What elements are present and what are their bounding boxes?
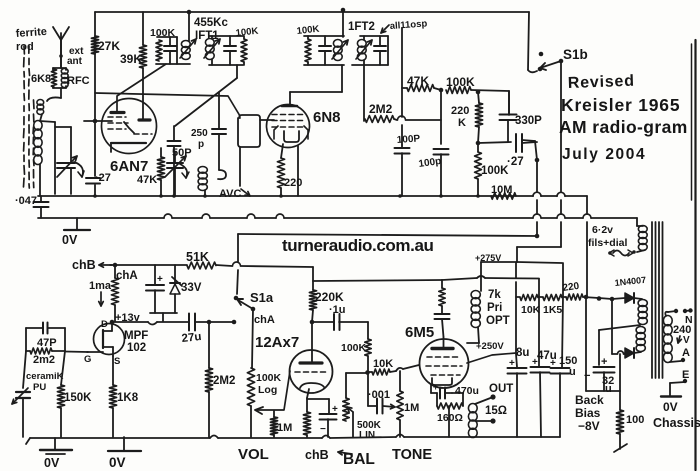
wire ps bus joins (538, 296, 543, 298)
ground 0V bottom left (54, 438, 56, 450)
capacitor C 27u (188, 314, 190, 331)
tube 6N8 plate bar (272, 114, 303, 116)
capacitor C 8u (515, 263, 517, 278)
resistor R 220K plate (312, 281, 314, 290)
box 6N8 osc input (238, 115, 260, 147)
svg-text:·1u: ·1u (329, 304, 346, 316)
svg-text:K: K (458, 117, 466, 129)
svg-text:470u: 470u (455, 385, 479, 397)
wire IFT1 sec down (236, 65, 238, 78)
svg-text:u: u (569, 366, 576, 378)
svg-text:220: 220 (284, 177, 302, 189)
svg-text:100K: 100K (481, 165, 509, 177)
svg-text:100K: 100K (256, 372, 282, 384)
svg-text:2M2: 2M2 (369, 102, 393, 116)
wire ant coil link (40, 114, 42, 121)
svg-text:1M: 1M (404, 402, 419, 414)
svg-text:39K: 39K (120, 52, 142, 66)
wire S1b switch (528, 12, 529, 70)
svg-text:1FT2: 1FT2 (348, 21, 375, 33)
svg-text:V: V (683, 335, 690, 346)
wire HT CT (599, 325, 640, 330)
svg-text:·047: ·047 (15, 195, 37, 207)
junction dots bus y196 (93, 194, 97, 198)
svg-text:100K: 100K (446, 75, 475, 89)
zener D 33V (174, 265, 176, 283)
svg-text:RFC: RFC (67, 75, 90, 87)
ferrite rod dashed lines (23, 46, 24, 187)
variable capacitor C tune1 (55, 126, 71, 128)
capacitor C .001 (368, 405, 377, 407)
svg-text:0V: 0V (663, 400, 678, 414)
svg-text:220: 220 (451, 105, 469, 117)
svg-text:−: − (320, 424, 326, 435)
node 47K-100K junction (439, 88, 444, 93)
svg-text:1M: 1M (277, 422, 292, 434)
svg-text:150K: 150K (64, 392, 92, 404)
variable capacitor C tune2 osc (174, 152, 176, 162)
arrow tuning gang curve (74, 162, 83, 177)
svg-text:10K: 10K (373, 358, 393, 370)
wire 330p top link (508, 91, 510, 115)
tube 6AN7 envelope (102, 99, 157, 154)
bus AVC/0V y196 (38, 195, 533, 197)
svg-text:·27: ·27 (95, 172, 111, 184)
svg-text:turneraudio.com.au: turneraudio.com.au (282, 236, 434, 255)
svg-text:0V: 0V (44, 456, 60, 470)
svg-text:51K: 51K (186, 250, 209, 264)
svg-text:VOL: VOL (238, 446, 269, 463)
pickup PU crystal (23, 351, 26, 388)
resistor R 2m2 gate (26, 350, 30, 352)
IFT2 tankB box (360, 35, 388, 37)
tube 12AX7 envelope (290, 350, 333, 393)
wire detector feed (363, 65, 365, 121)
svg-text:+: + (433, 382, 438, 392)
svg-text:27u: 27u (181, 331, 202, 345)
svg-text:6K8: 6K8 (31, 73, 51, 85)
resistor R 100K ift1 (156, 40, 162, 61)
resistor R 1K5 (543, 295, 562, 301)
diode D 1N4007 lower (612, 353, 617, 355)
inductor L ant coupling (37, 100, 44, 106)
tube 6M5 grid dashes (427, 356, 458, 358)
resistor R 6K8 (51, 69, 56, 87)
wire 2M2-100p2 (440, 90, 442, 144)
inductor L osc coil (198, 167, 207, 174)
svg-text:G: G (84, 354, 91, 365)
svg-text:+: + (509, 358, 515, 369)
svg-text:Back: Back (575, 393, 604, 407)
svg-text:−: − (584, 370, 590, 382)
capacitor C supply bypass (154, 265, 156, 284)
wire FET out line (112, 321, 148, 323)
inductor L OPT secondary (468, 404, 477, 413)
svg-text:AM radio-gram: AM radio-gram (559, 117, 688, 137)
resistor R 220 6N8 cathode (281, 144, 283, 158)
label all110sp (381, 25, 389, 33)
svg-text:PU: PU (33, 382, 46, 393)
tube 6N8 top cap (282, 105, 297, 108)
wire radio to S1a (237, 234, 239, 262)
wire 27K branch vertical (94, 12, 96, 176)
inductor L IFT1 primary (181, 41, 190, 48)
svg-text:S: S (114, 356, 120, 367)
svg-text:p: p (198, 139, 204, 150)
tube 12AX7 plate bar (300, 361, 322, 364)
svg-text:100K: 100K (235, 26, 259, 39)
wire osc hook (218, 170, 226, 179)
svg-text:chA: chA (254, 314, 275, 326)
resistor R 100K det (446, 87, 471, 94)
resistor R 220K det (476, 90, 481, 95)
svg-text:Log: Log (258, 384, 277, 396)
resistor R 150K (61, 351, 65, 385)
resistor R 6K8 and RFC coil box (53, 67, 66, 69)
wire 6N8 grid link (341, 65, 343, 92)
wire osc grid line (95, 93, 240, 116)
wire 12AX7 grid (256, 371, 290, 410)
capacitor C .27 coupling (515, 134, 517, 152)
dial lamp squiggle (613, 251, 629, 256)
svg-text:2M2: 2M2 (213, 375, 235, 387)
resistor R 220 ps (566, 294, 583, 300)
wire zener-cap bottom (150, 312, 177, 314)
antenna symbol (60, 40, 62, 68)
svg-text:Revised: Revised (568, 73, 636, 92)
resistor R 1M tone (399, 371, 401, 391)
svg-text:330P: 330P (515, 115, 542, 127)
svg-text:S1a: S1a (250, 290, 274, 305)
resistor R 160 (437, 403, 463, 409)
svg-text:Bias: Bias (575, 406, 601, 420)
resistor R 10K ps (520, 295, 538, 301)
resistor R 47K 6AN7 cathode (160, 148, 162, 157)
resistor R 100K agc (475, 152, 482, 179)
resistor R 27K (91, 36, 98, 54)
wire OUT terminal (475, 397, 493, 404)
svg-text:6M5: 6M5 (405, 324, 434, 341)
tube 6N8 grid dashes (272, 120, 303, 122)
svg-text:1ma: 1ma (89, 280, 112, 292)
svg-text:250: 250 (191, 128, 208, 139)
svg-text:1N4007: 1N4007 (614, 275, 646, 288)
wire 6AN7 grid link (84, 120, 112, 122)
svg-text:BAL: BAL (343, 451, 375, 468)
svg-text:100p: 100p (418, 156, 442, 170)
resistor R 10K tone (368, 371, 372, 373)
wire 39K branch (142, 12, 144, 45)
capacitor C 470u cathode (431, 392, 437, 394)
wire 6M5 cathode gnd (448, 406, 450, 437)
svg-text:0V: 0V (109, 455, 126, 470)
tube 6M5 cathode (432, 378, 452, 385)
wire B+ riser x587 (586, 196, 588, 214)
wire 6N8 right leg (297, 146, 299, 196)
page edge right (694, 40, 696, 470)
capacitor C .1u (312, 321, 334, 323)
svg-text:100K: 100K (341, 342, 367, 354)
inductor L OPT primary (480, 262, 482, 291)
svg-text:Chassis: Chassis (653, 416, 700, 430)
svg-text:0V: 0V (62, 233, 78, 247)
wire S1b feed down (560, 61, 562, 192)
earth chassis (683, 379, 687, 383)
svg-text:102: 102 (127, 342, 146, 354)
node chA contact (232, 320, 237, 325)
svg-text:ceramiK: ceramiK (26, 371, 64, 382)
svg-text:455Kc: 455Kc (194, 17, 228, 29)
tube 6AN7 plate bars (111, 111, 124, 114)
svg-text:chB: chB (305, 448, 329, 462)
bus rectifier DC (516, 296, 520, 298)
capacitor C 47P (26, 327, 43, 329)
svg-text:July 2004: July 2004 (562, 146, 646, 163)
svg-text:all11osp: all11osp (389, 18, 427, 32)
wire fils bus end (636, 218, 638, 226)
wire S1b jog (517, 246, 561, 248)
IFT1 sec box (209, 35, 243, 37)
node B+ takeoff (584, 295, 589, 300)
svg-text:12Ax7: 12Ax7 (255, 334, 299, 351)
svg-text:+: + (157, 274, 163, 285)
inductor L 240V primary (663, 316, 672, 326)
svg-text:Kreisler 1965: Kreisler 1965 (561, 95, 680, 115)
tube 6M5 plate bar (432, 347, 453, 350)
svg-text:+: + (332, 404, 338, 415)
resistor R 1M grid leak (273, 411, 275, 417)
resistor R 100K ift1 sec (241, 39, 247, 62)
capacitor C ift1 (169, 37, 171, 46)
capacitor C 150u (562, 263, 564, 297)
resistor R 39K (139, 45, 146, 68)
IFT1 tank box (157, 36, 177, 38)
svg-text:ant: ant (67, 56, 83, 67)
resistor R 47K det (402, 87, 407, 89)
capacitor C 47u (538, 279, 540, 366)
wire detector top tap (522, 140, 535, 141)
svg-text:A: A (682, 347, 690, 359)
tube 6AN7 cathode (111, 142, 146, 144)
ground 0V mpf (123, 437, 125, 451)
resistor R 2M2 leak (208, 322, 210, 368)
wire radio audio vertical (535, 141, 537, 160)
svg-text:100K: 100K (296, 24, 320, 37)
tube 6AN7 grid dashes (108, 116, 126, 118)
inductor L RFC (61, 69, 68, 75)
capacitor C 50p (173, 126, 175, 141)
inductor L filament 6.2v (638, 226, 647, 233)
resistor R drain 1ma (114, 265, 116, 278)
tube 6M5 envelope (420, 339, 469, 388)
capacitor C .27 (osc) (86, 177, 100, 179)
svg-text:·27: ·27 (507, 156, 524, 168)
svg-text:2m2: 2m2 (33, 354, 55, 366)
inductor L ant tuned (34, 121, 42, 131)
svg-text:47K: 47K (407, 74, 429, 88)
wire A lead (670, 361, 681, 362)
resistor R fb (439, 288, 445, 306)
wiper 500K (347, 407, 353, 412)
resistor R 10M (491, 193, 516, 199)
svg-text:ferrite: ferrite (15, 26, 47, 40)
svg-text:u: u (605, 383, 612, 395)
tube 6N8 envelope (267, 105, 310, 148)
inductor L HT winding lower (636, 327, 645, 334)
resistor R 2M2 det (365, 116, 394, 123)
svg-text:15Ω: 15Ω (485, 405, 507, 417)
wire 6N8 feed (341, 8, 346, 13)
wire det out node (478, 142, 511, 143)
svg-text:D: D (101, 319, 108, 330)
svg-text:33V: 33V (181, 282, 202, 294)
inductor L IFT2 pri (333, 40, 342, 48)
svg-text:6N8: 6N8 (313, 109, 341, 126)
svg-text:AVC: AVC (219, 188, 241, 200)
wire 6AN7 plate link (117, 64, 166, 111)
svg-text:160Ω: 160Ω (437, 412, 463, 424)
capacitor C cathode bypass (307, 398, 329, 400)
bus ground bottom (30, 437, 210, 439)
wire 15ohm tap (475, 420, 493, 422)
svg-text:chA: chA (116, 270, 138, 282)
svg-text:OUT: OUT (489, 383, 513, 395)
svg-text:+275V: +275V (475, 253, 501, 263)
svg-text:220K: 220K (315, 290, 344, 304)
capacitor C ift2a (324, 36, 326, 45)
capacitor C 250p (218, 92, 220, 128)
resistor R 51K (187, 262, 216, 269)
svg-text:6·2v: 6·2v (592, 224, 613, 236)
wire IFT1 feed (188, 12, 190, 41)
switch mains (665, 312, 668, 316)
resistor R 100K ift2 (305, 39, 311, 62)
svg-text:100P: 100P (396, 133, 420, 146)
wire 6M5 screen (467, 353, 516, 363)
svg-text:LIN: LIN (359, 430, 375, 441)
resistor R 100K tone (367, 322, 369, 339)
wire bal branch (346, 372, 367, 374)
svg-text:8u: 8u (516, 347, 529, 359)
inductor L IFT2 sec (357, 40, 366, 48)
capacitor C 100p 1 (395, 147, 410, 149)
tube 6N8 cathode (284, 131, 299, 142)
tube 12AX7 cathode (300, 383, 324, 388)
svg-text:chB: chB (72, 258, 96, 272)
svg-text:1K5: 1K5 (543, 304, 562, 316)
capacitor C ift1 sec (229, 36, 231, 46)
svg-text:10K: 10K (521, 304, 541, 316)
svg-text:+250V: +250V (476, 341, 504, 352)
svg-text:S1b: S1b (563, 47, 588, 62)
svg-text:47K: 47K (137, 174, 157, 186)
svg-text:220: 220 (562, 281, 580, 294)
potentiometer R 100K Log (247, 368, 254, 406)
svg-text:7k: 7k (488, 289, 501, 301)
diode D 1N4007 upper (612, 298, 625, 299)
capacitor C fb (441, 306, 443, 313)
wire tone cap branch (367, 372, 369, 406)
svg-text:100K: 100K (150, 27, 176, 39)
svg-text:Pri: Pri (487, 302, 502, 314)
potentiometer R 500K LIN (343, 398, 349, 421)
inductor L HT winding upper (638, 300, 647, 307)
svg-text:100: 100 (626, 414, 644, 426)
ground 0V top (76, 218, 78, 230)
wire 12AX7 cathode leg (307, 389, 309, 398)
switch S1a (234, 296, 239, 301)
wire 6M5 plate net (441, 280, 443, 288)
resistor R 1K8 (112, 356, 114, 385)
capacitor C 330p (508, 91, 510, 113)
svg-text:OPT: OPT (486, 315, 510, 327)
wire top B+ bus (95, 11, 529, 13)
svg-text:1K8: 1K8 (117, 392, 139, 404)
svg-text:−8V: −8V (578, 419, 600, 433)
svg-text:10M: 10M (491, 184, 512, 196)
bus 0V y218 (38, 217, 164, 219)
wire back bias vertical (619, 354, 621, 391)
resistor R 100 (619, 391, 621, 410)
svg-text:TONE: TONE (392, 447, 432, 463)
tube 12AX7 grid dash (295, 371, 326, 373)
transistor Q MPF102 (94, 324, 125, 355)
bus B+ rail 275V (99, 264, 112, 266)
capacitor C ift2b (379, 36, 381, 45)
svg-text:27K: 27K (98, 39, 120, 53)
svg-text:47P: 47P (37, 337, 57, 349)
resistor R 1M cathode (306, 398, 308, 412)
IFT2 tankA box (304, 35, 344, 37)
capacitor C .047 (40, 196, 42, 202)
svg-text:6AN7: 6AN7 (110, 158, 148, 175)
svg-text:·001: ·001 (368, 389, 390, 401)
svg-text:+: + (550, 358, 556, 369)
wire 47K det vertical (401, 28, 403, 117)
svg-text:fils+dial: fils+dial (588, 237, 627, 249)
wire radio audio line (238, 234, 537, 236)
inductor L IFT1 sec (205, 39, 214, 47)
wire S1a to pot (252, 309, 253, 368)
svg-text:MPF: MPF (124, 330, 148, 342)
wire ant to coil (60, 40, 62, 68)
transformer core (651, 222, 653, 378)
